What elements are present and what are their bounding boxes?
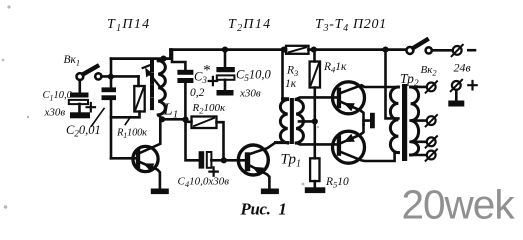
resistor R1 — [111, 76, 147, 140]
wire Tr1 secondary bottom to T4 base — [296, 143, 337, 144]
wire bus down to Tr1 primary — [281, 50, 284, 100]
node C3 bottom junction — [182, 117, 188, 123]
node center tap junction — [312, 118, 318, 124]
battery plus terminal — [451, 80, 477, 101]
transformer Tr2 primary winding — [390, 87, 398, 153]
transformer Tr2 secondary winding — [411, 87, 419, 155]
node junction at switch output — [108, 74, 114, 80]
node C5 top junction — [222, 47, 228, 53]
svg-text:0,2: 0,2 — [190, 87, 205, 99]
wire L1 bottom to C3/R2 node — [162, 118, 186, 121]
scan speckles — [2, 5, 319, 208]
terminal 3 — [426, 136, 437, 147]
arrow of adjustable L1 — [143, 65, 162, 89]
svg-text:Т2П14: Т2П14 — [228, 17, 271, 34]
ground under C1 — [70, 112, 90, 118]
svg-text:х30в: х30в — [44, 107, 66, 119]
svg-text:1к: 1к — [285, 78, 297, 90]
capacitor C3 — [172, 50, 211, 120]
svg-text:Т1П14: Т1П14 — [107, 17, 150, 34]
core of Tr1 (dashed) — [290, 100, 294, 143]
label Tr1 — [281, 152, 301, 170]
svg-text:R3: R3 — [286, 65, 298, 79]
wire top bus R3 to Vk2 — [309, 48, 407, 51]
svg-text:С510,0: С510,0 — [236, 68, 271, 84]
svg-text:R41к: R41к — [323, 61, 347, 75]
terminal 4 — [426, 149, 437, 160]
ground under R5 — [305, 187, 326, 193]
wire top bus to R3 — [171, 48, 287, 51]
label T2 P14 — [228, 17, 271, 34]
svg-text:Вк2: Вк2 — [421, 64, 438, 78]
transistor T4 — [333, 125, 399, 164]
switch Vk1 — [64, 54, 102, 80]
terminal leads of Tr2 secondary — [411, 87, 427, 155]
svg-text:R2100к: R2100к — [192, 102, 226, 116]
ground under T2 emitter — [261, 189, 279, 195]
label T1 P14 — [107, 17, 150, 34]
node R3 left junction — [281, 47, 287, 53]
terminal 1 — [426, 81, 437, 92]
resistor R2 — [186, 102, 226, 160]
svg-text:Тр1: Тр1 — [281, 152, 301, 170]
core of L1 (dashed) — [150, 62, 154, 113]
resistor R5 — [310, 121, 349, 189]
wire junction up to left bus — [110, 59, 113, 77]
ground under battery plus — [448, 101, 464, 107]
svg-text:R1100к: R1100к — [116, 128, 147, 141]
svg-text:х30в: х30в — [239, 88, 261, 100]
wire common emitters to chassis — [364, 120, 371, 124]
transformer Tr1 secondary winding — [296, 100, 303, 144]
svg-text:20wek: 20wek — [402, 182, 516, 228]
capacitor C4 — [178, 120, 246, 189]
label Tr2 — [400, 71, 419, 89]
label T3-T4 P201 — [315, 17, 387, 34]
svg-text:С110,0: С110,0 — [43, 90, 73, 103]
terminal 2 — [426, 115, 437, 126]
svg-text:Рис. 1: Рис. 1 — [240, 200, 287, 219]
wire switch to junction and R1 — [102, 75, 139, 78]
svg-text:24в: 24в — [454, 61, 471, 75]
watermark 20wek — [402, 182, 516, 228]
resistor R4 — [310, 50, 347, 122]
svg-text:L1: L1 — [163, 100, 179, 121]
capacitor C1 — [43, 80, 96, 119]
caption Ris. 1 — [240, 200, 287, 219]
node L1 bottom junction — [159, 116, 165, 122]
ground under T1 emitter — [151, 189, 169, 195]
svg-text:*: * — [203, 63, 211, 79]
wire Tr1 secondary top to T3 base — [296, 97, 337, 99]
capacitor C5 — [209, 50, 272, 100]
node R2/C4 junction — [221, 157, 227, 163]
capacitor C2 — [66, 76, 116, 158]
svg-text:R510: R510 — [325, 176, 349, 190]
transistor T2 — [238, 143, 288, 189]
transistor T1 — [111, 119, 160, 188]
svg-text:Вк1: Вк1 — [64, 54, 81, 67]
ground under C5 — [217, 90, 234, 96]
node L1 top junction — [160, 56, 166, 62]
svg-text:Т3-Т4 П201: Т3-Т4 П201 — [315, 17, 387, 34]
wire left bus segment — [111, 50, 171, 59]
battery minus terminal — [452, 45, 475, 75]
node Tr2 tap junction on bus — [382, 47, 388, 53]
switch Vk2 — [406, 40, 452, 78]
transistor T3 — [333, 82, 399, 121]
node R3 right junction — [311, 47, 317, 53]
resistor R3 — [285, 46, 309, 90]
svg-text:С20,01: С20,01 — [66, 123, 101, 139]
transformer Tr1 primary winding — [276, 99, 288, 143]
inductor L1 — [158, 59, 178, 121]
wire Tr1 center tap — [299, 120, 315, 123]
wire bus down to Tr2 center tap — [386, 50, 399, 119]
svg-text:С410,0х30в: С410,0х30в — [178, 176, 230, 190]
ground bar for emitters — [370, 113, 375, 129]
core of Tr2 (solid bar) — [402, 84, 407, 161]
